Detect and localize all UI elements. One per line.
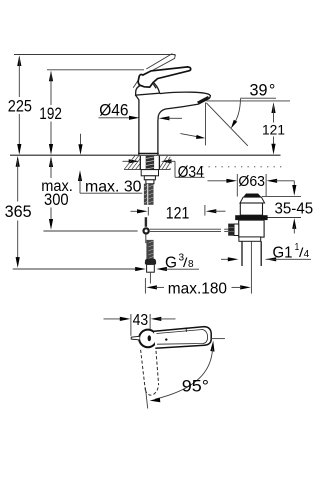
svg-text:365: 365 — [5, 202, 32, 221]
svg-text:max. 30: max. 30 — [85, 179, 142, 196]
svg-text:43: 43 — [133, 312, 149, 329]
svg-text:G: G — [165, 254, 177, 271]
svg-text:Ø63: Ø63 — [238, 174, 265, 190]
svg-text:4: 4 — [304, 248, 310, 260]
svg-text:G1: G1 — [273, 244, 293, 261]
svg-text:95°: 95° — [182, 378, 209, 396]
svg-text:192: 192 — [39, 105, 62, 123]
svg-text:225: 225 — [8, 98, 32, 116]
svg-text:121: 121 — [166, 204, 190, 222]
svg-text:max.180: max.180 — [168, 281, 227, 298]
svg-text:121: 121 — [262, 122, 285, 138]
svg-text:39 °: 39 ° — [250, 81, 276, 99]
svg-text:300: 300 — [44, 191, 69, 209]
svg-text:35-45: 35-45 — [275, 200, 314, 217]
svg-text:Ø34: Ø34 — [178, 164, 205, 181]
svg-text:8: 8 — [188, 258, 194, 270]
svg-text:Ø46: Ø46 — [99, 102, 128, 120]
